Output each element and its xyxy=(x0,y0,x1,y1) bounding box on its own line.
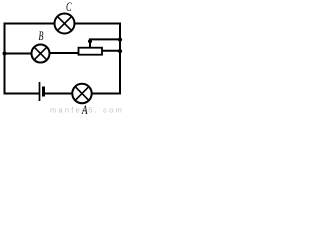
svg-text:A: A xyxy=(81,102,87,116)
svg-text:B: B xyxy=(39,28,44,43)
svg-text:C: C xyxy=(66,0,72,14)
